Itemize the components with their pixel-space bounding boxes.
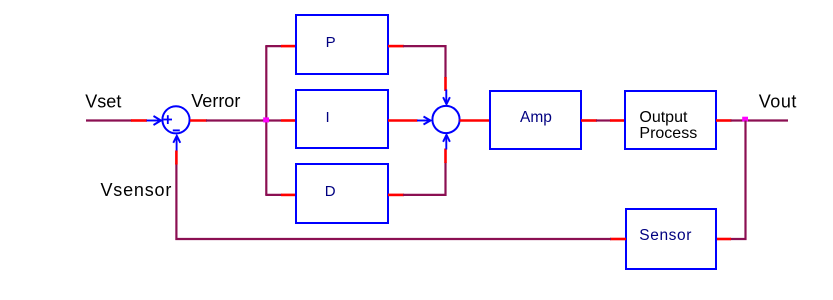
- svg-text:Vout: Vout: [759, 92, 797, 112]
- wire branch to D: [265, 194, 282, 196]
- wire red stub into P: [281, 45, 296, 48]
- wire Sensor feedback to U1: [176, 163, 611, 239]
- wire branch vertical: [265, 46, 267, 195]
- wire red stub out of Output Process: [716, 119, 732, 122]
- block D: [296, 164, 388, 223]
- wire red stub out of D: [388, 194, 404, 197]
- wire red stub into summer U1: [131, 119, 147, 122]
- svg-text:Vset: Vset: [85, 91, 121, 111]
- arrow into U2 top: [443, 90, 450, 105]
- svg-text:D: D: [325, 183, 336, 200]
- block I: [296, 90, 388, 148]
- svg-text:Output: Output: [639, 109, 688, 126]
- wire red stub out of I: [388, 119, 418, 122]
- svg-text:P: P: [326, 34, 336, 51]
- op-amp U2 summing junction circle: [432, 106, 459, 133]
- arrow into U1 left: [147, 116, 162, 125]
- pin - of U1: [173, 129, 180, 131]
- block Output Process: [625, 91, 716, 149]
- wire Vset input: [86, 119, 132, 121]
- svg-text:Verror: Verror: [191, 91, 240, 111]
- svg-text:Sensor: Sensor: [639, 227, 692, 244]
- pin + of U1: [164, 115, 173, 124]
- wire D to summer U2: [403, 162, 446, 195]
- wire red stub out of U1: [190, 119, 207, 122]
- wire red stub up to U1 bottom: [175, 151, 178, 165]
- arrow into U2 left: [417, 117, 431, 125]
- svg-text:Amp: Amp: [520, 109, 552, 126]
- wire U2 to Amp: [460, 119, 491, 122]
- wire branch to P: [265, 45, 282, 47]
- block Amp: [490, 91, 581, 149]
- arrow into U2 bottom: [443, 135, 450, 150]
- op-amp U1 summing junction circle: [162, 106, 189, 133]
- wire red stub out of Amp: [581, 119, 597, 122]
- svg-text:I: I: [326, 109, 330, 126]
- arrow into U1 bottom: [173, 136, 180, 152]
- wire Vout to right: [731, 119, 789, 121]
- wire red stub top of U2: [444, 77, 447, 91]
- svg-text:Vsensor: Vsensor: [101, 180, 173, 200]
- node junction at Vout: [742, 117, 748, 122]
- block Sensor: [626, 209, 716, 269]
- wire red stub into D: [281, 194, 296, 197]
- wire P to summer U2: [403, 46, 446, 78]
- wire red stub into Output Process: [610, 119, 625, 122]
- wire Vout down to Sensor: [730, 121, 746, 240]
- wire Amp to Output Process: [596, 119, 611, 121]
- wire red stub bottom of U2: [444, 149, 447, 164]
- wire red stub out of Sensor left: [610, 238, 626, 241]
- node junction at Verror branch: [263, 117, 269, 122]
- wire red stub into I: [281, 119, 296, 122]
- wire Verror to branch: [206, 119, 281, 121]
- wire red stub out of P: [388, 45, 404, 48]
- wire red stub into Sensor right: [716, 238, 731, 241]
- svg-text:Process: Process: [639, 125, 697, 142]
- block P: [296, 15, 388, 74]
